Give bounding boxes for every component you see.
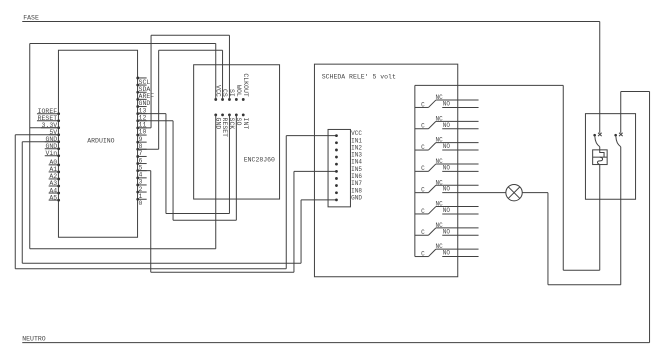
relay K2 NO contact: [442, 128, 478, 130]
wire arduino pin12: [138, 113, 166, 115]
relay K4 common wire: [415, 170, 429, 172]
arduino pin 13: [138, 106, 147, 108]
wire relay C bus: [414, 85, 416, 256]
wire drop to ENC VCC pin: [215, 43, 217, 99]
arduino pin GND: [45, 148, 59, 150]
breaker element (thermal-magnetic): [593, 150, 608, 165]
relay K3 NO contact: [442, 149, 478, 151]
enc28j60 pin SO: [235, 113, 238, 116]
connector pin IN5: [335, 170, 338, 173]
svg-text:SCHEDA RELE' 5 volt: SCHEDA RELE' 5 volt: [322, 73, 396, 80]
relay K6 blade: [428, 207, 435, 214]
wire top run to ENC SI: [151, 34, 229, 36]
switch SW2 (breaker contact): [619, 133, 623, 136]
relay K7 common wire: [415, 234, 429, 236]
arduino pin 3.3V: [41, 127, 59, 129]
relay K1 common wire: [415, 106, 429, 108]
wire top run to ENC CS: [159, 49, 223, 51]
wire ENC SO drop: [235, 115, 237, 220]
wire drop to ENC SI pin: [228, 35, 230, 99]
arduino pin 1: [138, 191, 147, 193]
svg-text:ARDUINO: ARDUINO: [87, 137, 114, 144]
wire bottom run to ENC SCK: [166, 213, 230, 215]
relay K8 common wire: [415, 256, 429, 258]
svg-text:CLKOUT: CLKOUT: [242, 73, 249, 97]
svg-text:GND: GND: [351, 194, 362, 201]
arduino pin 0: [138, 198, 147, 200]
arduino pin IOREF: [37, 113, 59, 115]
wire FASE rail: [22, 21, 600, 23]
breaker box body: [585, 114, 635, 200]
wire to switch2 top: [620, 92, 622, 133]
svg-text:Vin: Vin: [45, 150, 57, 157]
wire 5V vertical left: [14, 135, 16, 269]
relay K1 NO contact: [442, 106, 478, 108]
arduino U1 body: [58, 50, 137, 237]
arduino pin 10: [138, 127, 147, 129]
arduino pin GND: [45, 141, 59, 143]
arduino pin AREF: [138, 91, 147, 93]
relay K5 common wire: [415, 192, 429, 194]
arduino pin A4: [49, 192, 59, 194]
relay K7 NC contact: [436, 227, 479, 229]
arduino pin A1: [49, 171, 59, 173]
svg-text:IN8: IN8: [351, 187, 362, 194]
wire arduino pin10: [138, 127, 152, 129]
relay K6 NO contact: [442, 213, 478, 215]
wire NEUTRO top link: [621, 91, 650, 93]
svg-text:IN3: IN3: [351, 152, 362, 159]
wire bottom run 5V: [15, 268, 286, 270]
svg-text:IN1: IN1: [351, 137, 362, 144]
arduino pin 11: [138, 120, 147, 122]
connector pin IN7: [335, 184, 338, 187]
relay K3 common wire: [415, 149, 429, 151]
svg-text:NO: NO: [443, 122, 451, 129]
relay K5 blade: [428, 185, 435, 192]
svg-text:A2: A2: [49, 173, 57, 180]
lamp LP1: [506, 184, 522, 200]
svg-text:C: C: [421, 250, 425, 257]
enc28j60 pin VCC: [214, 98, 217, 101]
relay K2 NC contact: [436, 120, 479, 122]
connector pin IN8: [335, 191, 338, 194]
svg-text:IN2: IN2: [351, 144, 362, 151]
wire arduino pin4: [138, 170, 151, 172]
wire NEUTRO riser: [649, 92, 651, 343]
arduino pin RESET: [37, 120, 59, 122]
wire pin10 riser: [150, 35, 152, 128]
relay K4 blade: [428, 164, 435, 171]
svg-text:0: 0: [139, 200, 143, 207]
relay K7 NO contact: [442, 234, 478, 236]
wire C bus to breaker: [415, 84, 563, 86]
arduino pin SDA: [138, 84, 147, 86]
svg-text:A4: A4: [49, 187, 57, 194]
svg-text:NO: NO: [443, 207, 451, 214]
wire ENC SCK drop: [228, 115, 230, 214]
svg-text:C: C: [421, 144, 425, 151]
arduino pin Vin: [45, 155, 59, 157]
svg-text:GND: GND: [45, 143, 57, 150]
wire bottom run GND: [22, 262, 301, 264]
connector pin IN2: [335, 149, 338, 152]
arduino pin 5: [138, 163, 147, 165]
relay K2 common wire: [415, 128, 429, 130]
svg-text:IOREF: IOREF: [38, 108, 58, 115]
arduino pin 6: [138, 155, 147, 157]
relay K4 NC contact: [436, 163, 479, 165]
wire breaker return bottom: [563, 269, 600, 271]
svg-text:RESET: RESET: [221, 118, 228, 138]
wire into connector GND: [301, 199, 336, 201]
arduino pin 9: [138, 134, 147, 136]
wire FASE drop to breaker switch: [599, 22, 601, 133]
arduino pin 4: [138, 170, 147, 172]
relay K6 NC contact: [436, 206, 479, 208]
wire pin4 drop: [150, 171, 152, 273]
svg-text:ENC28J60: ENC28J60: [244, 157, 275, 164]
arduino pin 2: [138, 184, 147, 186]
enc28j60 pin CS: [221, 98, 224, 101]
relay board U3 body: [314, 64, 457, 277]
arduino pin 7: [138, 148, 147, 150]
arduino pin SCL: [138, 77, 147, 79]
wire bottom run ENC GND: [30, 248, 216, 250]
switch SW1 (breaker contact): [598, 133, 602, 136]
arduino pin 5V: [49, 134, 59, 136]
arduino pin 12: [138, 113, 147, 115]
svg-text:A0: A0: [49, 159, 57, 166]
svg-text:IN5: IN5: [351, 166, 362, 173]
enc28j60 pin CLKOUT: [242, 98, 245, 101]
svg-text:NO: NO: [443, 250, 451, 257]
wire arduino pin11: [138, 120, 174, 122]
wire arduino 5V pin: [15, 134, 58, 136]
arduino pin A0: [49, 164, 59, 166]
enc28j60 pin INT: [242, 113, 245, 116]
connector pin VCC: [335, 134, 338, 137]
ethernet module U2 body: [194, 65, 280, 199]
svg-text:A5: A5: [49, 194, 57, 201]
wire arduino 3.3V pin: [30, 127, 59, 129]
enc28j60 pin WOL: [235, 98, 238, 101]
arduino pin A2: [49, 178, 59, 180]
wire drop to ENC CS pin: [222, 50, 224, 99]
svg-text:NO: NO: [443, 143, 451, 150]
wire breaker return drop: [562, 85, 564, 270]
svg-text:NO: NO: [443, 164, 451, 171]
wire pin12 drop: [165, 114, 167, 214]
wire switch1 to coil: [599, 147, 601, 150]
relay K3 blade: [428, 143, 435, 150]
connector pin IN3: [335, 156, 338, 159]
arduino pin GND: [138, 98, 147, 100]
svg-text:A1: A1: [49, 166, 57, 173]
relay K1 blade: [428, 100, 435, 107]
wire bottom run to ENC SO: [173, 219, 236, 221]
wire ENC GND drop: [215, 115, 217, 249]
svg-text:C: C: [421, 186, 425, 193]
svg-text:C: C: [421, 208, 425, 215]
svg-text:IN7: IN7: [351, 180, 362, 187]
arduino pin A5: [49, 199, 59, 201]
svg-text:VCC: VCC: [351, 130, 362, 137]
wire riser to connector IN5: [293, 171, 295, 272]
wire lamp drop: [547, 193, 549, 285]
wire into connector VCC: [286, 135, 336, 137]
wire pin7 riser: [158, 50, 160, 149]
relay K4 NO contact: [442, 170, 478, 172]
relay K8 NC contact: [436, 248, 479, 250]
wire into connector IN5: [294, 170, 337, 172]
wire GND vertical left: [21, 142, 23, 264]
svg-text:C: C: [421, 229, 425, 236]
wire bottom run to switch2: [548, 284, 621, 286]
relay K3 NC contact: [436, 142, 479, 144]
relay K2 blade: [428, 121, 435, 128]
enc28j60 pin SCK: [228, 113, 231, 116]
svg-text:C: C: [421, 123, 425, 130]
svg-text:IN6: IN6: [351, 173, 362, 180]
svg-text:NO: NO: [443, 100, 451, 107]
arduino pin 8: [138, 141, 147, 143]
wire top run to ENC VCC: [30, 42, 216, 44]
svg-text:IN4: IN4: [351, 159, 362, 166]
wire arduino GND pin: [22, 141, 58, 143]
svg-text:FASE: FASE: [23, 15, 39, 22]
svg-text:A3: A3: [49, 180, 57, 187]
svg-text:C: C: [421, 165, 425, 172]
svg-text:INT: INT: [242, 118, 249, 130]
wire breaker coil down: [599, 165, 601, 271]
wire NEUTRO rail: [22, 342, 649, 344]
relay K1 NC contact: [436, 99, 479, 101]
wire arduino pin7: [138, 148, 159, 150]
svg-text:NEUTRO: NEUTRO: [22, 336, 46, 343]
svg-text:WOL: WOL: [235, 85, 242, 97]
wire riser to connector GND: [300, 200, 302, 263]
svg-text:RESET: RESET: [38, 115, 58, 122]
relay K5 NO contact: [442, 192, 506, 194]
enc28j60 pin SI: [228, 98, 231, 101]
svg-text:C: C: [421, 101, 425, 108]
relay K5 NC contact: [436, 184, 479, 186]
arduino pin A3: [49, 185, 59, 187]
enc28j60 pin GND: [214, 113, 217, 116]
relay K8 NO contact: [442, 256, 478, 258]
svg-text:NO: NO: [443, 186, 451, 193]
wire riser to connector VCC: [285, 136, 287, 269]
wire 3.3V vertical left: [29, 43, 31, 248]
connector pin IN1: [335, 141, 338, 144]
connector pin IN6: [335, 177, 338, 180]
relay K7 blade: [428, 228, 435, 235]
connector pin IN4: [335, 163, 338, 166]
wire pin11 drop: [172, 121, 174, 221]
relay board connector J1: [328, 129, 350, 206]
arduino pin 3: [138, 177, 147, 179]
relay K6 common wire: [415, 213, 429, 215]
svg-text:NO: NO: [443, 228, 451, 235]
wire bottom run IN5: [151, 271, 294, 273]
connector pin GND: [335, 198, 338, 201]
wire lamp to switch2: [522, 192, 548, 194]
wire switch2 bottom: [620, 147, 622, 285]
relay K8 blade: [428, 249, 435, 256]
enc28j60 pin RESET: [221, 113, 224, 116]
